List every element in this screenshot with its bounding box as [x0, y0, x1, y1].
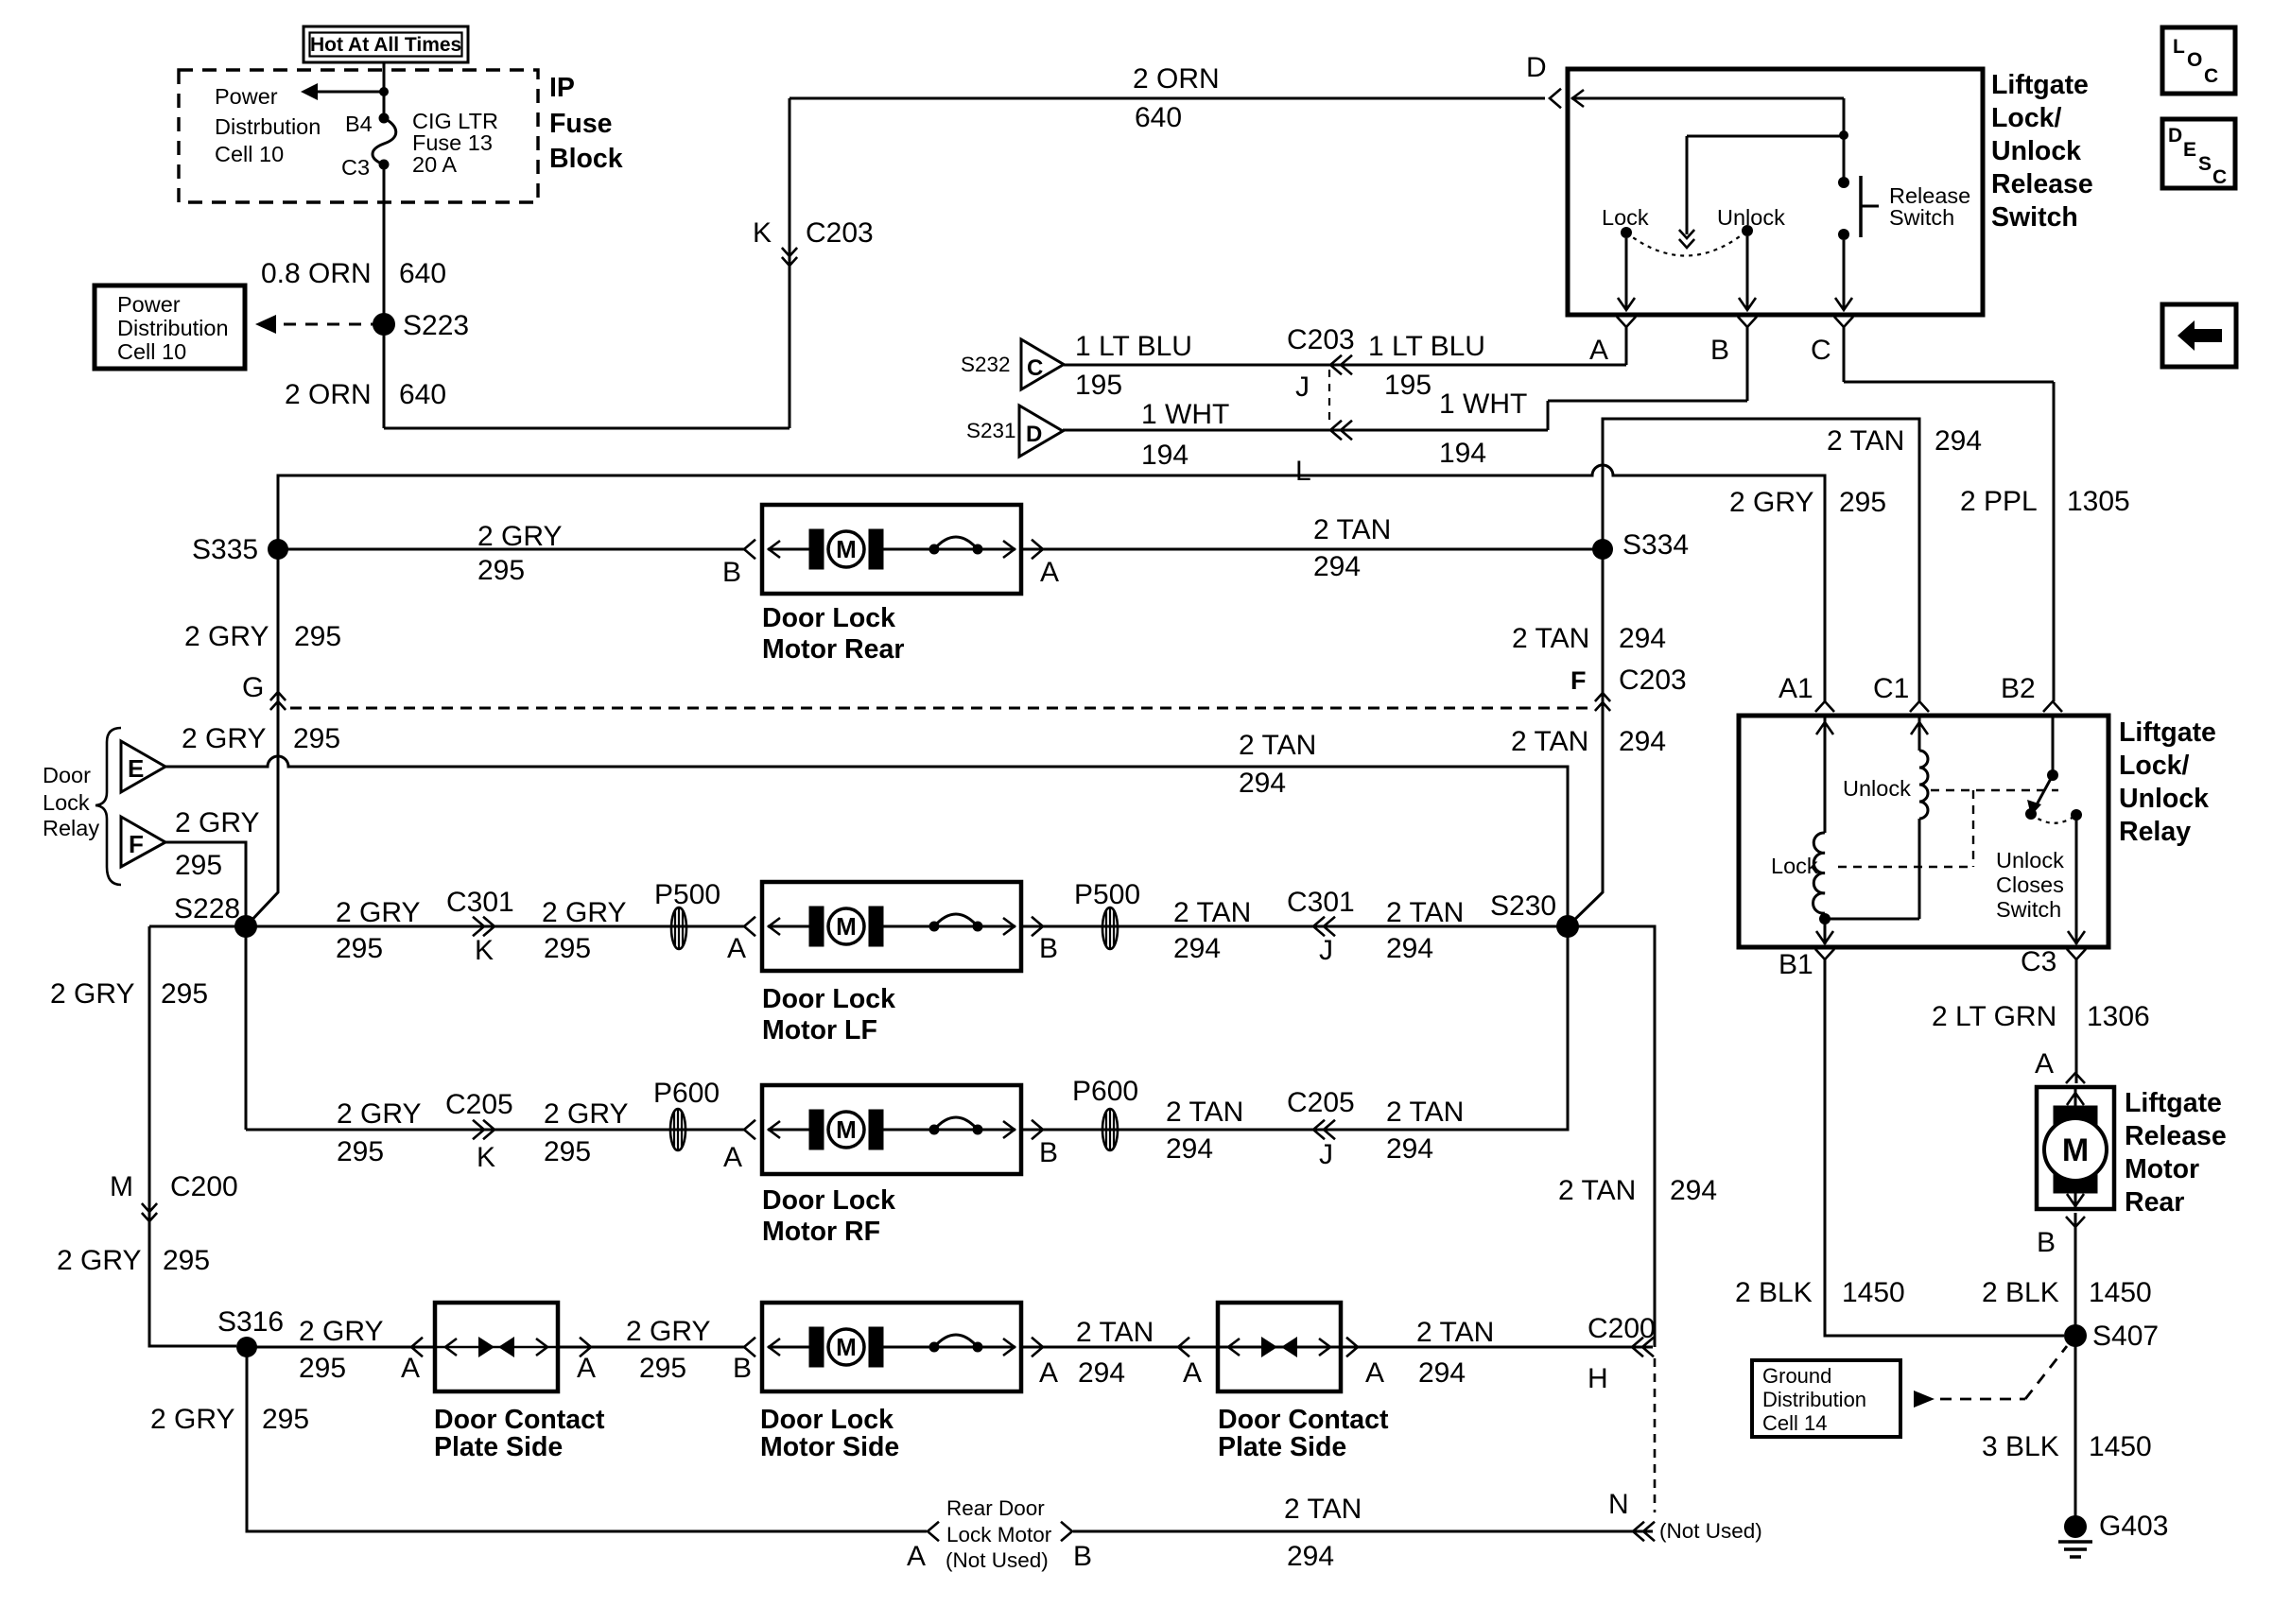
- svg-text:295: 295: [1839, 487, 1886, 518]
- svg-text:295: 295: [299, 1353, 346, 1384]
- svg-text:Closes: Closes: [1996, 872, 2064, 897]
- svg-text:M: M: [836, 535, 857, 563]
- svg-text:294: 294: [1166, 1133, 1213, 1165]
- svg-text:S231: S231: [966, 419, 1016, 442]
- svg-text:J: J: [1319, 1139, 1333, 1170]
- svg-text:1 LT BLU: 1 LT BLU: [1075, 331, 1192, 362]
- svg-text:A: A: [577, 1353, 596, 1384]
- svg-text:2 GRY: 2 GRY: [175, 807, 260, 838]
- svg-text:B2: B2: [2001, 673, 2036, 704]
- svg-text:2 TAN: 2 TAN: [1166, 1097, 1243, 1128]
- svg-text:2 TAN: 2 TAN: [1076, 1317, 1154, 1348]
- svg-text:295: 295: [294, 621, 341, 652]
- svg-text:Lock: Lock: [43, 790, 90, 815]
- svg-text:2 TAN: 2 TAN: [1558, 1175, 1636, 1206]
- svg-text:Cell 10: Cell 10: [215, 142, 284, 166]
- svg-text:2 TAN: 2 TAN: [1239, 730, 1316, 761]
- svg-text:195: 195: [1384, 370, 1431, 401]
- svg-text:A: A: [1040, 557, 1059, 588]
- svg-text:B: B: [1073, 1541, 1092, 1572]
- svg-text:2 TAN: 2 TAN: [1827, 425, 1904, 457]
- svg-text:F: F: [129, 830, 144, 858]
- svg-text:A: A: [1365, 1357, 1384, 1389]
- svg-text:M: M: [836, 1115, 857, 1144]
- svg-text:Door Lock: Door Lock: [762, 984, 895, 1014]
- svg-text:294: 294: [1239, 768, 1286, 799]
- svg-text:S316: S316: [217, 1306, 284, 1338]
- svg-text:1 LT BLU: 1 LT BLU: [1368, 331, 1485, 362]
- svg-text:L: L: [2173, 36, 2185, 58]
- svg-text:J: J: [1319, 935, 1333, 966]
- svg-text:Lock: Lock: [1771, 854, 1818, 878]
- svg-text:2 GRY: 2 GRY: [184, 621, 269, 652]
- svg-text:K: K: [475, 935, 494, 966]
- svg-text:2 PPL: 2 PPL: [1960, 486, 2038, 517]
- svg-text:A: A: [1589, 335, 1608, 366]
- svg-text:N: N: [1608, 1489, 1629, 1520]
- svg-text:295: 295: [175, 850, 222, 881]
- svg-text:S407: S407: [2092, 1321, 2159, 1352]
- svg-text:C: C: [1811, 335, 1831, 366]
- svg-text:Distribution: Distribution: [117, 316, 229, 340]
- svg-text:(Not Used): (Not Used): [946, 1548, 1049, 1572]
- svg-text:S228: S228: [174, 893, 240, 924]
- svg-text:2 TAN: 2 TAN: [1386, 1097, 1464, 1128]
- svg-text:2 ORN: 2 ORN: [1133, 63, 1220, 95]
- svg-text:294: 294: [1935, 425, 1982, 457]
- svg-text:C200: C200: [170, 1171, 238, 1202]
- svg-text:295: 295: [163, 1245, 210, 1276]
- svg-text:C3: C3: [341, 155, 370, 180]
- svg-text:0.8 ORN: 0.8 ORN: [261, 258, 372, 289]
- svg-text:Lock/: Lock/: [1991, 103, 2062, 133]
- svg-text:B4: B4: [345, 112, 373, 136]
- svg-text:1306: 1306: [2087, 1001, 2150, 1032]
- svg-text:Cell 14: Cell 14: [1762, 1411, 1827, 1435]
- svg-text:Lock/: Lock/: [2119, 751, 2190, 781]
- svg-text:P600: P600: [653, 1078, 720, 1109]
- svg-text:294: 294: [1386, 1133, 1433, 1165]
- svg-text:C203: C203: [806, 217, 874, 249]
- svg-text:B: B: [1039, 1137, 1058, 1168]
- svg-text:C205: C205: [445, 1089, 513, 1120]
- svg-text:A: A: [1183, 1357, 1202, 1389]
- svg-text:Lock Motor: Lock Motor: [946, 1523, 1052, 1546]
- svg-text:Power: Power: [117, 292, 181, 317]
- svg-text:B1: B1: [1778, 949, 1813, 980]
- svg-text:194: 194: [1439, 438, 1486, 469]
- svg-text:2 TAN: 2 TAN: [1511, 726, 1588, 757]
- svg-text:K: K: [477, 1142, 495, 1173]
- svg-text:195: 195: [1075, 370, 1122, 401]
- svg-text:Liftgate: Liftgate: [2119, 717, 2216, 748]
- svg-text:M: M: [110, 1171, 133, 1202]
- svg-text:B: B: [1039, 933, 1058, 964]
- svg-text:640: 640: [399, 379, 446, 410]
- svg-text:Door Lock: Door Lock: [762, 603, 895, 633]
- svg-text:Unlock: Unlock: [1717, 205, 1785, 230]
- svg-text:2 GRY: 2 GRY: [57, 1245, 142, 1276]
- svg-text:1305: 1305: [2067, 486, 2130, 517]
- svg-text:Liftgate: Liftgate: [1991, 70, 2089, 100]
- svg-text:Power: Power: [215, 84, 278, 109]
- svg-text:295: 295: [336, 933, 383, 964]
- svg-text:P500: P500: [654, 879, 720, 910]
- svg-text:Motor LF: Motor LF: [762, 1015, 877, 1045]
- svg-text:Hot At All Times: Hot At All Times: [310, 34, 461, 56]
- svg-text:B: B: [1710, 335, 1729, 366]
- svg-text:Switch: Switch: [1889, 205, 1954, 230]
- svg-text:Cell 10: Cell 10: [117, 339, 186, 364]
- svg-text:2 TAN: 2 TAN: [1512, 623, 1589, 654]
- svg-text:A: A: [1039, 1357, 1058, 1389]
- svg-text:E: E: [2183, 139, 2196, 161]
- svg-text:295: 295: [161, 978, 208, 1010]
- svg-text:2 BLK: 2 BLK: [1735, 1277, 1813, 1308]
- svg-text:Plate Side: Plate Side: [1218, 1432, 1346, 1462]
- svg-text:C200: C200: [1588, 1313, 1656, 1344]
- svg-text:2 TAN: 2 TAN: [1173, 897, 1251, 928]
- svg-text:C301: C301: [1287, 887, 1355, 918]
- svg-text:1450: 1450: [2089, 1431, 2152, 1462]
- svg-text:A: A: [401, 1353, 420, 1384]
- svg-text:Unlock: Unlock: [1843, 776, 1911, 801]
- svg-text:G403: G403: [2099, 1511, 2168, 1542]
- svg-text:294: 294: [1619, 623, 1666, 654]
- svg-text:(Not Used): (Not Used): [1659, 1519, 1762, 1543]
- svg-text:S230: S230: [1490, 890, 1556, 922]
- svg-text:295: 295: [544, 1136, 591, 1167]
- svg-text:Motor Side: Motor Side: [760, 1432, 899, 1462]
- svg-text:Ground: Ground: [1762, 1364, 1831, 1388]
- svg-text:1 WHT: 1 WHT: [1439, 389, 1527, 420]
- svg-text:2 GRY: 2 GRY: [477, 521, 563, 552]
- svg-text:C203: C203: [1287, 324, 1355, 355]
- svg-text:D: D: [2168, 125, 2182, 147]
- svg-text:Unlock: Unlock: [2119, 784, 2209, 814]
- svg-text:Rear: Rear: [2125, 1187, 2184, 1218]
- svg-text:Relay: Relay: [2119, 817, 2191, 847]
- svg-text:A: A: [2035, 1048, 2054, 1080]
- svg-text:3 BLK: 3 BLK: [1982, 1431, 2059, 1462]
- svg-text:Relay: Relay: [43, 816, 99, 840]
- svg-text:2 BLK: 2 BLK: [1982, 1277, 2059, 1308]
- svg-text:Door Lock: Door Lock: [760, 1405, 894, 1435]
- svg-text:S223: S223: [403, 310, 469, 341]
- svg-text:2 ORN: 2 ORN: [285, 379, 372, 410]
- svg-text:H: H: [1588, 1363, 1608, 1394]
- svg-text:2 TAN: 2 TAN: [1416, 1317, 1494, 1348]
- svg-text:Liftgate: Liftgate: [2125, 1088, 2222, 1118]
- svg-text:295: 295: [337, 1136, 384, 1167]
- svg-text:295: 295: [262, 1404, 309, 1435]
- svg-text:640: 640: [1135, 102, 1182, 133]
- svg-text:M: M: [836, 912, 857, 941]
- svg-text:Distrbution: Distrbution: [215, 114, 321, 139]
- svg-text:Door Lock: Door Lock: [762, 1185, 895, 1216]
- svg-text:C1: C1: [1873, 673, 1909, 704]
- svg-text:Door Contact: Door Contact: [434, 1405, 605, 1435]
- svg-text:294: 294: [1173, 933, 1221, 964]
- svg-text:1 WHT: 1 WHT: [1141, 399, 1229, 430]
- svg-text:2 GRY: 2 GRY: [1729, 487, 1814, 518]
- svg-text:M: M: [2062, 1132, 2089, 1168]
- svg-text:Release: Release: [2125, 1121, 2227, 1151]
- svg-text:294: 294: [1287, 1541, 1334, 1572]
- svg-text:P600: P600: [1072, 1076, 1138, 1107]
- svg-text:Unlock: Unlock: [1991, 136, 2081, 166]
- svg-text:2 TAN: 2 TAN: [1284, 1494, 1362, 1525]
- svg-text:295: 295: [639, 1353, 686, 1384]
- svg-text:IP: IP: [549, 73, 575, 103]
- svg-text:Block: Block: [549, 144, 623, 174]
- svg-text:O: O: [2187, 49, 2202, 71]
- svg-text:E: E: [128, 754, 144, 783]
- svg-text:Motor RF: Motor RF: [762, 1217, 880, 1247]
- svg-text:C: C: [2212, 166, 2227, 188]
- svg-text:Switch: Switch: [1996, 897, 2061, 922]
- svg-text:C: C: [1027, 355, 1043, 381]
- svg-text:D: D: [1526, 52, 1547, 83]
- svg-text:2 GRY: 2 GRY: [542, 897, 627, 928]
- svg-text:2 GRY: 2 GRY: [150, 1404, 235, 1435]
- svg-text:B: B: [2037, 1227, 2056, 1258]
- svg-text:Release: Release: [1991, 169, 2093, 199]
- svg-text:1450: 1450: [1842, 1277, 1905, 1308]
- svg-text:Door: Door: [43, 763, 91, 787]
- svg-text:A1: A1: [1778, 673, 1813, 704]
- svg-text:2 GRY: 2 GRY: [299, 1316, 384, 1347]
- svg-text:2 LT GRN: 2 LT GRN: [1932, 1001, 2056, 1032]
- svg-text:294: 294: [1313, 551, 1361, 582]
- svg-text:S232: S232: [961, 353, 1011, 376]
- svg-text:J: J: [1295, 371, 1310, 403]
- svg-text:Motor: Motor: [2125, 1154, 2199, 1184]
- svg-text:295: 295: [477, 555, 525, 586]
- svg-text:S: S: [2198, 153, 2212, 175]
- svg-text:F: F: [1570, 666, 1587, 695]
- svg-text:295: 295: [293, 723, 340, 754]
- svg-text:Switch: Switch: [1991, 202, 2078, 233]
- svg-text:C205: C205: [1287, 1087, 1355, 1118]
- svg-text:295: 295: [544, 933, 591, 964]
- svg-text:294: 294: [1386, 933, 1433, 964]
- svg-text:Unlock: Unlock: [1996, 848, 2064, 872]
- svg-text:A: A: [907, 1541, 926, 1572]
- svg-text:C301: C301: [446, 887, 514, 918]
- svg-text:L: L: [1295, 456, 1311, 487]
- svg-text:G: G: [242, 672, 264, 703]
- svg-text:2 GRY: 2 GRY: [182, 723, 267, 754]
- svg-text:B: B: [722, 557, 741, 588]
- svg-text:294: 294: [1619, 726, 1666, 757]
- svg-text:294: 294: [1078, 1357, 1125, 1389]
- svg-text:K: K: [753, 217, 772, 249]
- svg-text:2 GRY: 2 GRY: [336, 897, 421, 928]
- svg-text:Plate Side: Plate Side: [434, 1432, 563, 1462]
- svg-text:S334: S334: [1622, 529, 1689, 561]
- svg-text:Rear Door: Rear Door: [946, 1496, 1045, 1520]
- svg-text:194: 194: [1141, 440, 1189, 471]
- svg-text:Motor Rear: Motor Rear: [762, 634, 904, 665]
- svg-text:20 A: 20 A: [412, 152, 457, 177]
- svg-text:294: 294: [1670, 1175, 1717, 1206]
- svg-text:M: M: [836, 1333, 857, 1361]
- svg-text:S335: S335: [192, 534, 258, 565]
- svg-text:2 GRY: 2 GRY: [337, 1098, 422, 1130]
- svg-text:2 GRY: 2 GRY: [544, 1098, 629, 1130]
- svg-text:Fuse: Fuse: [549, 109, 613, 139]
- svg-text:640: 640: [399, 258, 446, 289]
- svg-text:294: 294: [1418, 1357, 1466, 1389]
- svg-text:2 GRY: 2 GRY: [626, 1316, 711, 1347]
- svg-text:C203: C203: [1619, 665, 1687, 696]
- svg-text:2 TAN: 2 TAN: [1313, 514, 1391, 545]
- svg-text:Distribution: Distribution: [1762, 1388, 1866, 1411]
- svg-text:D: D: [1026, 422, 1042, 447]
- svg-text:Door Contact: Door Contact: [1218, 1405, 1389, 1435]
- svg-text:1450: 1450: [2089, 1277, 2152, 1308]
- svg-text:2 TAN: 2 TAN: [1386, 897, 1464, 928]
- svg-text:A: A: [723, 1142, 742, 1173]
- svg-text:A: A: [727, 933, 746, 964]
- svg-text:C3: C3: [2021, 946, 2056, 977]
- svg-text:B: B: [733, 1353, 752, 1384]
- svg-text:C: C: [2204, 65, 2218, 87]
- svg-text:P500: P500: [1074, 879, 1140, 910]
- svg-text:Lock: Lock: [1602, 205, 1649, 230]
- svg-text:2 GRY: 2 GRY: [50, 978, 135, 1010]
